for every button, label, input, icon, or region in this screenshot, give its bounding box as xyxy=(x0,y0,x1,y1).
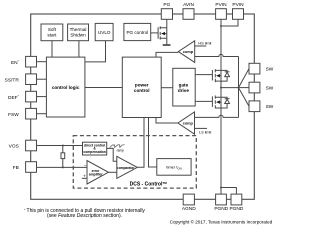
wire control logic to power control xyxy=(85,87,122,89)
DCS-Control dashed block xyxy=(73,136,196,189)
wire error amplifier output to comparator input xyxy=(108,171,116,173)
wire LS FET source down to PGND xyxy=(220,108,222,194)
wire fan to SW pin 3 xyxy=(239,88,250,107)
box PG control xyxy=(124,23,151,40)
svg-text:HS limit: HS limit xyxy=(198,41,212,45)
svg-text:(see Feature Description secti: (see Feature Description section). xyxy=(47,213,122,219)
svg-text:+: + xyxy=(83,174,86,179)
svg-text:PVIN: PVIN xyxy=(215,2,227,8)
transistor LS power FET Q2 xyxy=(212,96,221,109)
wire EN pin to control logic xyxy=(37,61,47,63)
svg-text:Shtdwn: Shtdwn xyxy=(70,32,86,37)
svg-text:gate: gate xyxy=(179,82,189,87)
wire HS comp output to power control top xyxy=(156,52,178,57)
wire direct control output to comparator input xyxy=(107,148,117,161)
wire SS/TR pin to control logic xyxy=(37,78,47,80)
svg-text:PGND: PGND xyxy=(214,206,228,212)
svg-text:control: control xyxy=(134,88,150,93)
wire HS limit stub xyxy=(195,45,207,47)
op-amp LS current limit comparator xyxy=(178,112,195,134)
wire gate drive to LS FET gate xyxy=(195,100,212,102)
wire PG control to PG FET gate xyxy=(151,32,158,34)
wire FB pin to error amplifier inverting input xyxy=(37,166,88,168)
wire DEF pin to control logic xyxy=(37,96,47,98)
diode LS body diode xyxy=(221,97,230,108)
pin PGND 1 xyxy=(216,194,227,205)
svg-text:Copyright © 2017, Texas Instru: Copyright © 2017, Texas Instruments Inco… xyxy=(170,218,273,224)
op-amp DCS comparator xyxy=(117,156,137,178)
wire PG FET source to ground xyxy=(166,38,168,44)
svg-text:FSW: FSW xyxy=(8,112,19,118)
wire comparator output up to power control xyxy=(137,118,144,168)
box timer tON xyxy=(157,159,191,176)
svg-text:control logic: control logic xyxy=(52,85,80,90)
svg-text:FB: FB xyxy=(13,165,19,171)
node FB divider junction xyxy=(62,166,64,168)
wire UVLO to control logic xyxy=(85,41,106,62)
node VOS divider junction xyxy=(62,145,64,147)
ramp waveform symbol xyxy=(110,145,125,148)
wire PG pin down to PG FET drain xyxy=(166,19,168,27)
svg-text:comparator: comparator xyxy=(117,166,135,170)
svg-text:VOS: VOS xyxy=(9,144,19,150)
pin SW 3 xyxy=(249,101,260,112)
pin DEF xyxy=(26,91,37,102)
svg-text:AGND: AGND xyxy=(182,206,196,212)
diode HS body diode xyxy=(221,70,230,81)
box power control xyxy=(122,57,161,117)
pin PGND 2 xyxy=(231,194,242,205)
box gate drive xyxy=(173,68,195,106)
op-amp error amplifier xyxy=(87,161,108,185)
wire FSW pin to control logic xyxy=(37,113,47,115)
wire LS limit stub xyxy=(195,127,208,129)
wire HS comp sense input with hop over rail xyxy=(195,54,239,56)
box soft start xyxy=(41,24,63,41)
svg-text:comp: comp xyxy=(183,122,194,126)
svg-text:LS limit: LS limit xyxy=(199,131,212,135)
svg-text:Soft: Soft xyxy=(48,27,57,32)
box thermal shutdown xyxy=(68,24,89,41)
svg-text:Thermal: Thermal xyxy=(70,27,87,32)
pin SS/TR xyxy=(26,74,37,85)
node SW fan point xyxy=(238,87,240,89)
wire gate drive to HS FET gate xyxy=(195,74,212,76)
svg-text:comp: comp xyxy=(183,50,194,54)
svg-text:SW: SW xyxy=(266,85,274,91)
svg-text:SW: SW xyxy=(266,104,274,110)
wire VOS pin to direct control block xyxy=(37,145,83,147)
svg-text:ramp: ramp xyxy=(117,149,124,153)
pin PVIN 2 xyxy=(233,9,244,20)
svg-text:UVLO: UVLO xyxy=(98,30,111,35)
pin FB xyxy=(26,162,37,173)
pin SW 2 xyxy=(249,82,260,93)
pin AVIN xyxy=(183,9,194,20)
svg-text:PVIN: PVIN xyxy=(232,2,244,8)
wire fan to SW pin 1 xyxy=(239,69,250,88)
pin FSW xyxy=(26,108,37,119)
node SW at main rail xyxy=(220,87,222,89)
svg-text:start: start xyxy=(47,32,57,37)
svg-text:PG control: PG control xyxy=(126,30,148,35)
svg-text:amplifier: amplifier xyxy=(89,173,103,177)
wire SW node to fan point xyxy=(221,87,239,89)
node PVIN junction xyxy=(220,25,222,27)
wire thermal-shutdown to control logic xyxy=(78,41,80,57)
box control logic xyxy=(46,57,85,117)
svg-text:drive: drive xyxy=(178,88,189,93)
svg-text:SW: SW xyxy=(266,66,274,72)
svg-text:PG: PG xyxy=(163,2,170,8)
transistor PG open-drain FET xyxy=(158,26,167,39)
transistor HS power FET Q1 xyxy=(212,69,221,82)
wire fan to SW pin 2 xyxy=(239,87,250,89)
svg-text:DCS - ControlTM: DCS - ControlTM xyxy=(130,181,168,188)
svg-text:timer tON: timer tON xyxy=(166,165,181,171)
wire internal divider VOS to FB xyxy=(62,146,64,168)
svg-text:AVIN: AVIN xyxy=(183,2,194,8)
pin AGND xyxy=(183,194,194,205)
wire LS comp output to power control bottom xyxy=(156,118,178,124)
wire VREF stub to error amplifier plus input xyxy=(82,177,87,179)
svg-text:compensation: compensation xyxy=(83,150,105,154)
svg-text:power: power xyxy=(135,82,149,87)
resistor internal feedback divider xyxy=(61,153,65,159)
wire sense rail between comparator inputs xyxy=(238,57,240,118)
ground PG FET source xyxy=(163,44,171,46)
wire LS comp sense input with hop over rail xyxy=(195,115,239,117)
svg-text:−: − xyxy=(84,163,87,168)
op-amp HS current limit comparator xyxy=(178,41,194,63)
box direct control and compensation xyxy=(83,142,107,155)
wire HS FET source to LS FET drain (SW rail) xyxy=(220,81,222,97)
wire power control down to timer xyxy=(149,118,157,168)
pin SW 1 xyxy=(249,63,260,74)
wire PGND2 joins PGND1 rail xyxy=(221,188,236,195)
svg-text:SS/TR: SS/TR xyxy=(5,77,20,83)
svg-text:PGND: PGND xyxy=(229,206,243,212)
pin EN xyxy=(26,56,37,67)
box UVLO xyxy=(95,23,113,40)
wire PVIN1 down main rail xyxy=(220,19,222,70)
chip outer boundary xyxy=(31,14,255,199)
node PGND junction xyxy=(220,187,222,189)
pin PVIN 1 xyxy=(216,9,227,20)
wire power control to gate drive xyxy=(161,87,173,89)
pin VOS xyxy=(26,140,37,151)
pin PG xyxy=(161,9,172,20)
wire PVIN2 joins PVIN1 xyxy=(221,19,238,26)
wire soft-start to control logic xyxy=(51,41,53,57)
